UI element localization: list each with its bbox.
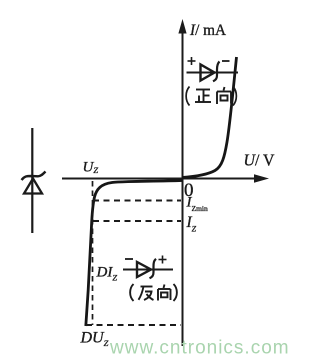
svg-text:DIZ: DIZ bbox=[96, 265, 118, 283]
svg-text:U/ V: U/ V bbox=[244, 151, 276, 170]
svg-text:IZmin: IZmin bbox=[186, 195, 208, 214]
svg-text:UZ: UZ bbox=[83, 160, 99, 176]
svg-text:DUZ: DUZ bbox=[80, 330, 109, 349]
svg-text:IZ: IZ bbox=[186, 214, 197, 234]
svg-text:I/ mA: I/ mA bbox=[189, 22, 226, 39]
svg-text:www.cntronics.com: www.cntronics.com bbox=[109, 338, 290, 359]
